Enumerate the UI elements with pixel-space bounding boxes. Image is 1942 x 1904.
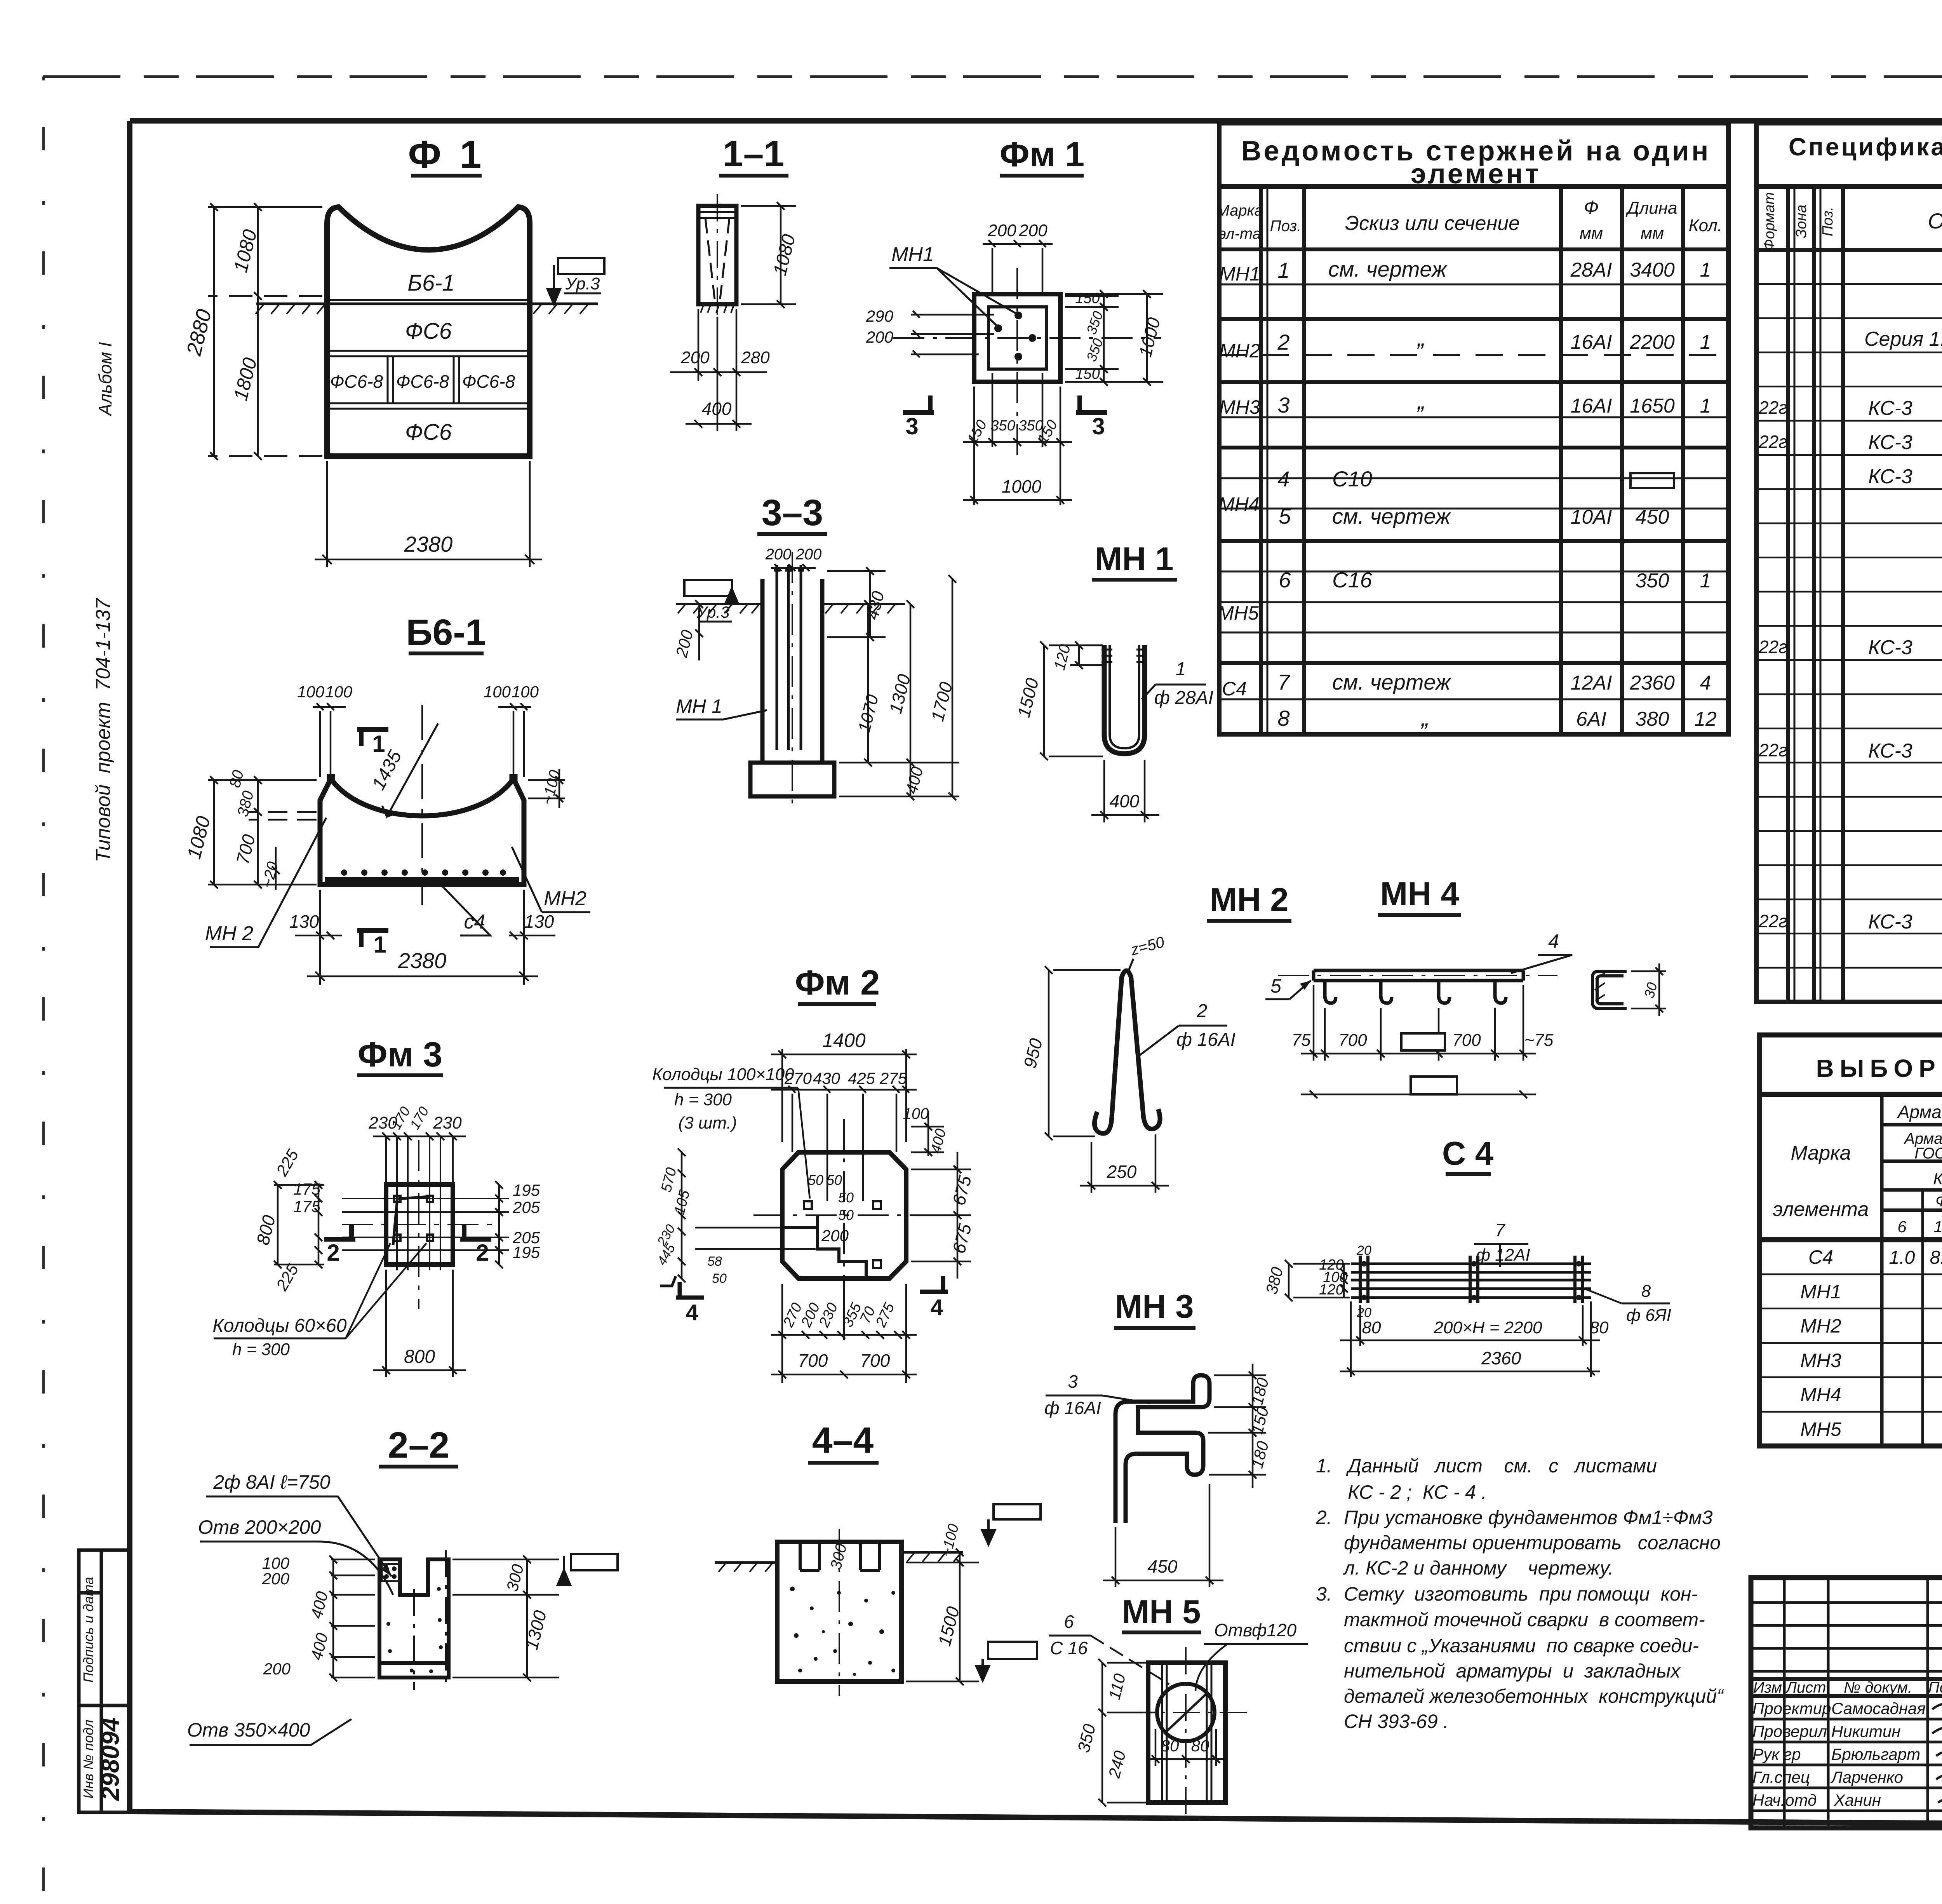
Fm2 left dims [654, 1166, 727, 1286]
svg-text:8: 8 [1641, 1282, 1651, 1301]
svg-text:16АІ: 16АІ [1571, 331, 1612, 354]
s22 right dims [452, 1556, 559, 1681]
s33 right dim chain [839, 575, 959, 800]
svg-text:ФС6: ФС6 [405, 420, 452, 445]
Fm2 step cutout [782, 1215, 866, 1279]
svg-text:400: 400 [702, 399, 732, 419]
svg-text:3: 3 [1277, 393, 1289, 417]
svg-text:200: 200 [1018, 221, 1048, 240]
vyborka header grid [1882, 1094, 1942, 1446]
svg-text:200: 200 [680, 348, 710, 367]
B6-1 bottom band [325, 877, 519, 883]
svg-text:(3 шт.): (3 шт.) [679, 1113, 737, 1132]
svg-text:Эскиз или сечение: Эскиз или сечение [1345, 212, 1520, 235]
svg-text:270: 270 [784, 1069, 812, 1087]
svg-text:Колодцы 100×100: Колодцы 100×100 [652, 1065, 794, 1084]
vedomost eskiz column values [1328, 257, 1451, 731]
s33 ur3 mark [684, 580, 738, 604]
outer trim dashed line left [42, 77, 45, 1896]
Fm2 inner anchor squares [804, 1201, 881, 1268]
svg-text:При установке фундаментов Фм1÷: При установке фундаментов Фм1÷Фм3 [1344, 1507, 1713, 1528]
svg-text:350: 350 [990, 418, 1015, 434]
svg-text:Альбом І: Альбом І [95, 342, 115, 417]
vyborka header texts [1773, 1102, 1942, 1236]
MH5 bottom dims 80 80 [1146, 1729, 1227, 1766]
vedomost poz column values [1277, 258, 1291, 730]
B6-1 top dimensions 100 100 [313, 703, 531, 777]
svg-text:250: 250 [1107, 1162, 1137, 1182]
svg-text:МН 4: МН 4 [1380, 876, 1459, 913]
svg-text:С10: С10 [1332, 467, 1372, 491]
C4 bottom dims [1340, 1301, 1600, 1377]
spec format 22g texts [1758, 397, 1787, 931]
svg-text:8: 8 [1277, 706, 1289, 730]
svg-text:Формат: Формат [1761, 192, 1778, 251]
F1 bottom dimension 2380 [315, 461, 542, 567]
spec column lines [1756, 186, 1942, 1002]
svg-text:2.: 2. [1316, 1507, 1332, 1528]
B6-1 left dimension chain [208, 776, 317, 890]
svg-text:200×Н = 2200: 200×Н = 2200 [1434, 1318, 1542, 1337]
svg-text:1000: 1000 [1002, 476, 1042, 496]
titleblock name rows [1752, 1699, 1926, 1809]
svg-text:С 4: С 4 [1442, 1135, 1493, 1172]
svg-text:50: 50 [827, 1172, 842, 1188]
svg-text:см. чертеж: см. чертеж [1328, 257, 1448, 281]
svg-text:205: 205 [512, 1198, 540, 1216]
svg-text:Фм 3: Фм 3 [358, 1035, 442, 1074]
svg-text:195: 195 [513, 1243, 540, 1261]
vedomost dlina column values [1629, 259, 1675, 730]
s11 bottom dims 200 280 [670, 309, 767, 431]
svg-text:МН4: МН4 [1800, 1384, 1841, 1406]
svg-text:1–1: 1–1 [723, 133, 785, 174]
Fm2 small dims 50 50 [808, 1172, 854, 1245]
svg-text:мм: мм [1641, 224, 1664, 243]
spec oboznachenie texts [1864, 328, 1942, 933]
svg-text:1: 1 [372, 731, 385, 757]
Fm1 anchor dots [994, 312, 1036, 361]
Fm1 left dims 290 200 [911, 311, 994, 357]
svg-text:430: 430 [813, 1069, 840, 1087]
vyborka marka values [1800, 1246, 1841, 1440]
svg-text:200: 200 [795, 546, 822, 563]
svg-text:МН4: МН4 [1218, 493, 1260, 515]
svg-text:8.4: 8.4 [1930, 1247, 1942, 1268]
svg-text:Б6-1: Б6-1 [406, 612, 486, 653]
Fm3 top dim labels [368, 1104, 462, 1132]
svg-text:130: 130 [289, 911, 319, 932]
MH3 bent profile [1115, 1375, 1209, 1523]
F1 outline [327, 207, 530, 456]
Fm1 top dims 200 200 [983, 240, 1053, 294]
MH4 channel dim 30 [1631, 963, 1666, 1016]
s44 right dim chain [906, 1549, 979, 1685]
svg-text:3: 3 [905, 413, 918, 439]
F1 left dimension chain [208, 203, 322, 460]
F1 ur3 level mark [548, 258, 604, 304]
titleblock signatures [1932, 1703, 1942, 1804]
svg-text:80: 80 [1362, 1318, 1381, 1337]
svg-text:4: 4 [1277, 467, 1289, 491]
svg-text:2–2: 2–2 [388, 1425, 450, 1466]
svg-text:эл-та: эл-та [1218, 225, 1261, 242]
svg-text:150: 150 [1075, 290, 1100, 307]
svg-text:20: 20 [1356, 1243, 1371, 1258]
svg-text:298094: 298094 [96, 1718, 124, 1801]
svg-text:2360: 2360 [1481, 1348, 1521, 1368]
svg-text:700: 700 [1338, 1031, 1367, 1050]
Fm3 inner anchor squares [394, 1196, 433, 1241]
s11 anchor cone [705, 218, 729, 299]
s33 footing [750, 763, 834, 796]
Fm3 plan square [386, 1185, 453, 1265]
svg-text:2200: 2200 [1629, 331, 1675, 354]
svg-text:100: 100 [484, 683, 511, 701]
svg-text:6: 6 [1279, 568, 1291, 592]
s44 concrete dots [790, 1587, 895, 1676]
vyborka outline [1759, 1035, 1942, 1446]
svg-text:Инв № подл: Инв № подл [80, 1719, 96, 1798]
svg-text:КС-3: КС-3 [1868, 740, 1912, 762]
svg-text:Б6-1: Б6-1 [407, 270, 455, 296]
svg-text:МН1: МН1 [1800, 1281, 1841, 1303]
svg-text:200: 200 [765, 546, 792, 563]
vedomost F column values [1570, 259, 1612, 730]
svg-text:элемент: элемент [1411, 159, 1541, 190]
svg-text:„: „ [1416, 325, 1425, 351]
svg-text:6АІ: 6АІ [1576, 708, 1606, 730]
svg-text:22г: 22г [1758, 432, 1787, 452]
svg-text:МН 1: МН 1 [676, 695, 722, 717]
svg-text:1: 1 [1700, 570, 1711, 592]
svg-text:Поз.: Поз. [1270, 218, 1302, 235]
svg-text:2: 2 [476, 1240, 489, 1266]
B6-1 bottom dimension 2380 [307, 890, 538, 985]
vyborka data row lines [1759, 1274, 1942, 1412]
Fm1 center lines [893, 268, 1161, 458]
svg-text:7: 7 [1495, 1220, 1505, 1240]
svg-text:80: 80 [1590, 1318, 1609, 1337]
svg-text:100: 100 [297, 683, 325, 701]
B6-1 right dimension ~100 [528, 769, 565, 808]
svg-text:ВЫБОРКА СТАЛИ НА ОДИН: ВЫБОРКА СТАЛИ НА ОДИН ЭЛЕМЕНТ кг [1816, 1054, 1942, 1082]
svg-text:ствии с „Указаниями по сварке: ствии с „Указаниями по сварке соеди- [1344, 1635, 1699, 1657]
svg-text:5: 5 [1279, 504, 1291, 528]
svg-text:2380: 2380 [398, 948, 447, 973]
svg-text:Ханин: Ханин [1834, 1791, 1881, 1809]
MH5 left dims [1098, 1659, 1155, 1806]
Fm3 right dim labels [512, 1181, 540, 1261]
svg-text:ф 16АІ: ф 16АІ [1176, 1030, 1236, 1050]
MH5 plate [1148, 1663, 1225, 1803]
svg-text:3: 3 [1068, 1371, 1078, 1392]
svg-text:Серия 1.116-1 в. 1: Серия 1.116-1 в. 1 [1864, 328, 1942, 350]
svg-text:4: 4 [1700, 672, 1711, 694]
svg-text:10АІ: 10АІ [1571, 506, 1612, 528]
Fm1 inner square [988, 307, 1047, 369]
svg-text:Марка: Марка [1791, 1142, 1851, 1164]
svg-text:МН 2: МН 2 [205, 922, 253, 945]
MH1 hairpin bar [1104, 645, 1145, 754]
svg-text:Данный лист см. с лис: Данный лист см. с листами [1346, 1455, 1657, 1477]
spec row lines [1756, 284, 1942, 968]
svg-text:деталей железобетонных констр: деталей железобетонных конструкций“ [1344, 1685, 1724, 1707]
svg-text:2: 2 [1277, 330, 1289, 354]
svg-text:1: 1 [1700, 395, 1711, 417]
svg-text:3.: 3. [1316, 1583, 1332, 1605]
svg-text:Никитин: Никитин [1831, 1722, 1900, 1740]
svg-text:КС-3: КС-3 [1868, 911, 1912, 933]
MH4 bottom dim line with erased rect [1301, 1090, 1536, 1098]
svg-text:С4: С4 [1808, 1246, 1833, 1268]
vedomost marka column values [1218, 263, 1260, 700]
svg-text:1: 1 [1700, 259, 1711, 281]
svg-text:КС-3: КС-3 [1868, 397, 1912, 420]
svg-text:100: 100 [512, 683, 539, 701]
B6-1 section mark 1 bottom [357, 930, 388, 947]
svg-text:1: 1 [1277, 258, 1289, 282]
svg-text:380: 380 [1636, 708, 1669, 730]
svg-text:см. чертеж: см. чертеж [1332, 670, 1451, 694]
B6-1 section mark 1 top [357, 730, 388, 746]
MH3 dim 450 [1103, 1484, 1223, 1587]
s44 ur marks [976, 1504, 1041, 1680]
svg-text:50: 50 [838, 1207, 854, 1223]
Fm2 plan outline [782, 1152, 906, 1279]
svg-text:700: 700 [798, 1350, 828, 1371]
svg-text:12АІ: 12АІ [1571, 672, 1612, 694]
s22 left dims [262, 1554, 331, 1678]
svg-text:2380: 2380 [404, 532, 453, 556]
svg-text:МН2: МН2 [544, 887, 586, 910]
svg-text:С 16: С 16 [1050, 1638, 1088, 1658]
svg-text:Лист: Лист [1785, 1679, 1826, 1696]
s11 right dim 1080 [741, 202, 796, 308]
Fm2 right dims 675 675 [911, 1152, 971, 1279]
svg-text:мм: мм [1580, 224, 1603, 243]
svg-text:Рук гр: Рук гр [1752, 1745, 1801, 1763]
svg-text:22г: 22г [1758, 740, 1787, 760]
Fm2 bottom rotated dims [780, 1300, 898, 1330]
s22 center line [414, 1550, 446, 1690]
svg-text:175: 175 [293, 1197, 321, 1216]
svg-text:Подпись и дата: Подпись и дата [80, 1577, 96, 1683]
svg-text:200: 200 [263, 1660, 291, 1678]
svg-text:200: 200 [262, 1570, 290, 1588]
vyborka data values [1889, 1247, 1942, 1442]
svg-text:ф 12АІ: ф 12АІ [1476, 1246, 1530, 1265]
C4 joint dots [1361, 1261, 1582, 1300]
svg-text:Кол.: Кол. [1689, 216, 1722, 235]
svg-text:Сетку изготовить при помощи: Сетку изготовить при помощи кон- [1344, 1583, 1698, 1605]
svg-text:800: 800 [404, 1347, 435, 1367]
MH4 plate [1314, 970, 1523, 981]
svg-text:ФС6-8: ФС6-8 [330, 371, 383, 392]
svg-text:1650: 1650 [1630, 395, 1675, 417]
svg-text:4: 4 [1548, 930, 1559, 952]
svg-text:Фм 2: Фм 2 [795, 963, 880, 1002]
svg-text:200: 200 [821, 1226, 849, 1245]
vedomost row lines [1219, 284, 1728, 699]
svg-text:МН 2: МН 2 [1209, 881, 1288, 918]
Fm1 section marks 3 [903, 395, 934, 413]
svg-text:КС-3: КС-3 [1868, 431, 1912, 454]
svg-text:4: 4 [931, 1295, 943, 1320]
svg-text:280: 280 [741, 348, 770, 367]
svg-text:7: 7 [1277, 670, 1290, 694]
Fm1 bottom dims [963, 373, 1072, 505]
MH5 hole circle [1157, 1684, 1215, 1741]
svg-text:„: „ [1416, 388, 1425, 414]
svg-text:ф 6ЯІ: ф 6ЯІ [1626, 1306, 1671, 1325]
outer trim dashed line top [43, 75, 1942, 78]
svg-text:1400: 1400 [822, 1030, 865, 1051]
svg-text:1.0: 1.0 [1889, 1247, 1915, 1268]
s22 rebar box [382, 1564, 399, 1581]
s22 section walls [379, 1559, 449, 1678]
svg-text:ф 16АІ: ф 16АІ [1044, 1398, 1101, 1418]
svg-text:МН1: МН1 [1219, 263, 1260, 285]
svg-text:h = 300: h = 300 [232, 1340, 290, 1359]
s11 bottom dim 400 [686, 420, 752, 428]
Fm3 bottom dim 800 [373, 1270, 466, 1377]
svg-text:Зона: Зона [1793, 205, 1810, 239]
MH5 center lines [1126, 1647, 1247, 1818]
svg-text:Нач.отд: Нач.отд [1752, 1791, 1817, 1809]
svg-text:Обозначение: Обозначение [1928, 209, 1942, 233]
F1 course labels [330, 270, 515, 445]
svg-text:28АІ: 28АІ [1570, 259, 1612, 281]
MH1 thread ticks [1102, 650, 1147, 662]
svg-text:50: 50 [838, 1190, 854, 1205]
svg-text:130: 130 [524, 911, 554, 932]
svg-text:фундаменты ориентировать сог: фундаменты ориентировать согласно [1344, 1532, 1721, 1554]
svg-text:230: 230 [433, 1113, 462, 1132]
s11 column outline [698, 206, 736, 304]
svg-text:150: 150 [1075, 366, 1100, 382]
svg-text:МН3: МН3 [1800, 1350, 1841, 1371]
svg-text:50: 50 [712, 1271, 727, 1286]
svg-text:СН 393-69 .: СН 393-69 . [1344, 1711, 1449, 1732]
svg-text:МН1: МН1 [891, 243, 934, 266]
svg-text:450: 450 [1148, 1556, 1178, 1577]
s44 ground left [715, 1563, 777, 1572]
svg-text:№ докум.: № докум. [1844, 1679, 1912, 1696]
s44 ground right [901, 1552, 963, 1562]
svg-text:л. КС-2 и данному чертежу: л. КС-2 и данному чертежу. [1343, 1557, 1614, 1579]
Fm3 left dim labels [252, 1146, 321, 1294]
svg-text:Самосадная: Самосадная [1831, 1699, 1926, 1718]
MH4 erased rect 1 [1401, 1033, 1445, 1050]
svg-text:Брюльгарт: Брюльгарт [1831, 1745, 1920, 1763]
svg-text:„: „ [1420, 705, 1429, 731]
MH1 dim 1500 [1040, 641, 1103, 760]
svg-text:МН 5: МН 5 [1122, 1594, 1201, 1631]
svg-text:2: 2 [327, 1240, 339, 1266]
svg-text:700: 700 [1452, 1031, 1481, 1050]
Fm3 vertical grid lines for dims [342, 1136, 509, 1270]
s33 center line [792, 552, 793, 810]
svg-text:4–4: 4–4 [812, 1420, 874, 1461]
svg-text:КС-3: КС-3 [1868, 636, 1912, 659]
Fm2 top dim 1400 [771, 1049, 917, 1201]
B6-1 center line [421, 705, 423, 905]
B6-1 outline [320, 777, 524, 885]
svg-text:4: 4 [686, 1300, 698, 1325]
svg-text:ф 28АІ: ф 28АІ [1154, 688, 1213, 708]
svg-text:6: 6 [1897, 1218, 1907, 1236]
svg-text:ФС6-8: ФС6-8 [462, 371, 515, 392]
svg-text:ГОСТ 5781-75: ГОСТ 5781-75 [1914, 1145, 1942, 1162]
spec header texts [1761, 192, 1942, 251]
svg-text:КС-3: КС-3 [1868, 465, 1912, 488]
MH2 dim 950 [1045, 966, 1121, 1140]
s33 anchor bolts above ground [774, 565, 804, 750]
Fm2 section mark 4 left [676, 1282, 704, 1298]
svg-text:Ур.3: Ур.3 [565, 274, 600, 293]
svg-text:Подпись: Подпись [1928, 1679, 1942, 1696]
svg-text:12: 12 [1694, 708, 1717, 730]
svg-text:3: 3 [1092, 413, 1105, 439]
svg-text:2ф 8АІ ℓ=750: 2ф 8АІ ℓ=750 [213, 1471, 330, 1493]
svg-text:ФС6: ФС6 [405, 319, 452, 344]
svg-text:МН2: МН2 [1219, 340, 1260, 362]
s33 dim 430 [827, 567, 886, 641]
F1 ground line [256, 300, 598, 314]
svg-text:6: 6 [1064, 1611, 1074, 1632]
svg-text:Отв 200×200: Отв 200×200 [198, 1516, 321, 1538]
svg-text:58: 58 [707, 1254, 722, 1269]
titleblock left grid [1751, 1578, 1942, 1828]
svg-text:Армат. изделия: Армат. изделия [1897, 1102, 1942, 1122]
svg-text:100: 100 [903, 1105, 929, 1122]
svg-text:12: 12 [1934, 1218, 1942, 1236]
svg-text:275: 275 [879, 1069, 907, 1087]
C4 mesh wires [1351, 1264, 1591, 1298]
svg-text:Проверил: Проверил [1752, 1722, 1827, 1740]
svg-text:h = 300: h = 300 [674, 1090, 732, 1109]
Fm1 outer square [974, 294, 1060, 382]
Fm3 section marks 2 [324, 1225, 355, 1239]
svg-text:22г: 22г [1758, 911, 1787, 931]
titleblock header row texts [1753, 1679, 1942, 1696]
B6-1 rebar dots [341, 869, 506, 876]
svg-text:290: 290 [866, 307, 894, 325]
s44 top slots [800, 1542, 880, 1570]
MH2 dim 250 [1080, 1134, 1169, 1193]
svg-text:Спецификация изделий, арматур: Спецификация изделий, арматуры и бетона … [1789, 133, 1942, 161]
svg-text:2360: 2360 [1629, 672, 1675, 694]
svg-text:1: 1 [1176, 659, 1186, 679]
svg-text:Колодцы 60×60: Колодцы 60×60 [212, 1315, 346, 1336]
s33 ground line [676, 604, 905, 613]
svg-text:200: 200 [987, 221, 1016, 240]
svg-text:Фм 1: Фм 1 [1000, 135, 1084, 174]
titleblock outline [1751, 1578, 1942, 1828]
svg-text:425: 425 [848, 1069, 875, 1087]
svg-text:Типовой проект 704-1-137: Типовой проект 704-1-137 [92, 598, 115, 862]
MH4 center line [1278, 975, 1557, 976]
MH2 bent bar [1095, 971, 1160, 1134]
vedomost header texts [1216, 197, 1722, 243]
svg-text:50: 50 [808, 1172, 823, 1188]
svg-text:Марка: Марка [1216, 202, 1263, 219]
svg-text:МН3: МН3 [1219, 396, 1260, 418]
svg-text:см. чертеж: см. чертеж [1332, 504, 1451, 528]
svg-text:С4: С4 [1222, 678, 1247, 700]
svg-text:700: 700 [860, 1350, 890, 1371]
